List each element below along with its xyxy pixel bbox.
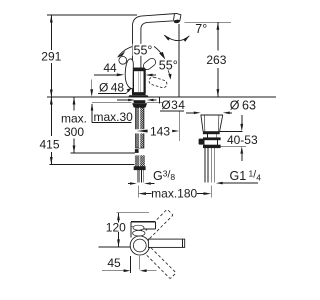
plan swivel range upper bar (dashed) (141, 209, 173, 241)
dimension line 120 (118, 213, 120, 223)
55 degree arc (handle swing) (118, 46, 133, 57)
svg-text:291: 291 (41, 50, 61, 64)
extension line spout axis (98, 246, 136, 248)
drain flange rim (203, 131, 220, 134)
7 degree axis line (178, 24, 180, 97)
dimension 45 (129, 256, 131, 273)
label 55 degrees (swing) (133, 44, 155, 56)
svg-text:Ø 63: Ø 63 (230, 98, 256, 112)
plan handle (131, 222, 156, 238)
svg-text:7°: 7° (195, 22, 207, 36)
drain pull rod knob (199, 139, 204, 145)
hose junction (135, 149, 139, 153)
svg-text:Ø34: Ø34 (161, 98, 185, 112)
svg-text:263: 263 (206, 53, 226, 67)
dimension 40-53 (220, 130, 243, 132)
faucet base flange (128, 95, 149, 97)
faucet body bottom band (132, 93, 146, 96)
handle ghost position left (119, 56, 127, 64)
label diameter 34 hole (158, 97, 160, 103)
svg-text:55°: 55° (159, 58, 178, 72)
svg-text:300: 300 (64, 125, 84, 139)
extension line top of spout (47, 14, 137, 16)
plan body circle (130, 236, 149, 255)
dimension 143 (135, 129, 145, 133)
extension line spout outlet (184, 21, 231, 23)
extension line pipe end level (49, 164, 134, 166)
faucet body (132, 68, 145, 93)
spout aerator (174, 19, 181, 23)
svg-text:max.180: max.180 (151, 187, 197, 201)
drain body bands (203, 137, 221, 140)
svg-text:143: 143 (150, 124, 170, 138)
dimension line 291/415 (50, 15, 52, 50)
faucet spout outline (132, 14, 180, 69)
handle ghost position right (142, 57, 157, 71)
mounting nut below deck (132, 103, 147, 107)
svg-text:max.30: max.30 (94, 110, 134, 124)
svg-text:120: 120 (106, 220, 126, 234)
deck line (47, 96, 276, 98)
drain neck (207, 134, 209, 137)
svg-text:55°: 55° (134, 43, 153, 57)
threaded shank (hatched) (136, 108, 144, 149)
label G 1 1/4 (216, 182, 223, 185)
drain tailpipe (204, 148, 206, 183)
plan swivel range lower bar (dashed) (144, 247, 176, 279)
label 55 degrees (handle down) (158, 61, 179, 71)
dimension max.180 (137, 186, 139, 198)
7 degree tilt arc (164, 35, 189, 40)
extension line hose end level (71, 152, 136, 154)
svg-text:max.: max. (61, 112, 87, 126)
dimension line max.300 (73, 97, 75, 111)
hose connection nuts (135, 155, 140, 167)
extension line handle top (117, 212, 149, 214)
handle lever rest position (125, 59, 133, 89)
svg-text:45: 45 (107, 256, 121, 270)
svg-text:40-53: 40-53 (227, 133, 258, 147)
drain flange (201, 114, 223, 116)
supply pipes (136, 170, 138, 183)
dimension max.30 deck thickness (91, 80, 93, 90)
pull rod reference line (178, 111, 180, 141)
svg-text:44: 44 (103, 61, 117, 75)
spout end cap face line (174, 14, 175, 20)
mounting seal at deck (134, 100, 146, 103)
svg-text:415: 415 (39, 138, 59, 152)
svg-text:Ø 48: Ø 48 (99, 80, 124, 94)
handle ghost position horizontal (dashed) (148, 76, 168, 89)
dimension diameter 63 (186, 112, 196, 114)
plan spout bar (148, 239, 184, 247)
pipe end arrows (128, 183, 130, 185)
deck underside line (92, 102, 132, 104)
dimension line 263 (217, 22, 219, 50)
